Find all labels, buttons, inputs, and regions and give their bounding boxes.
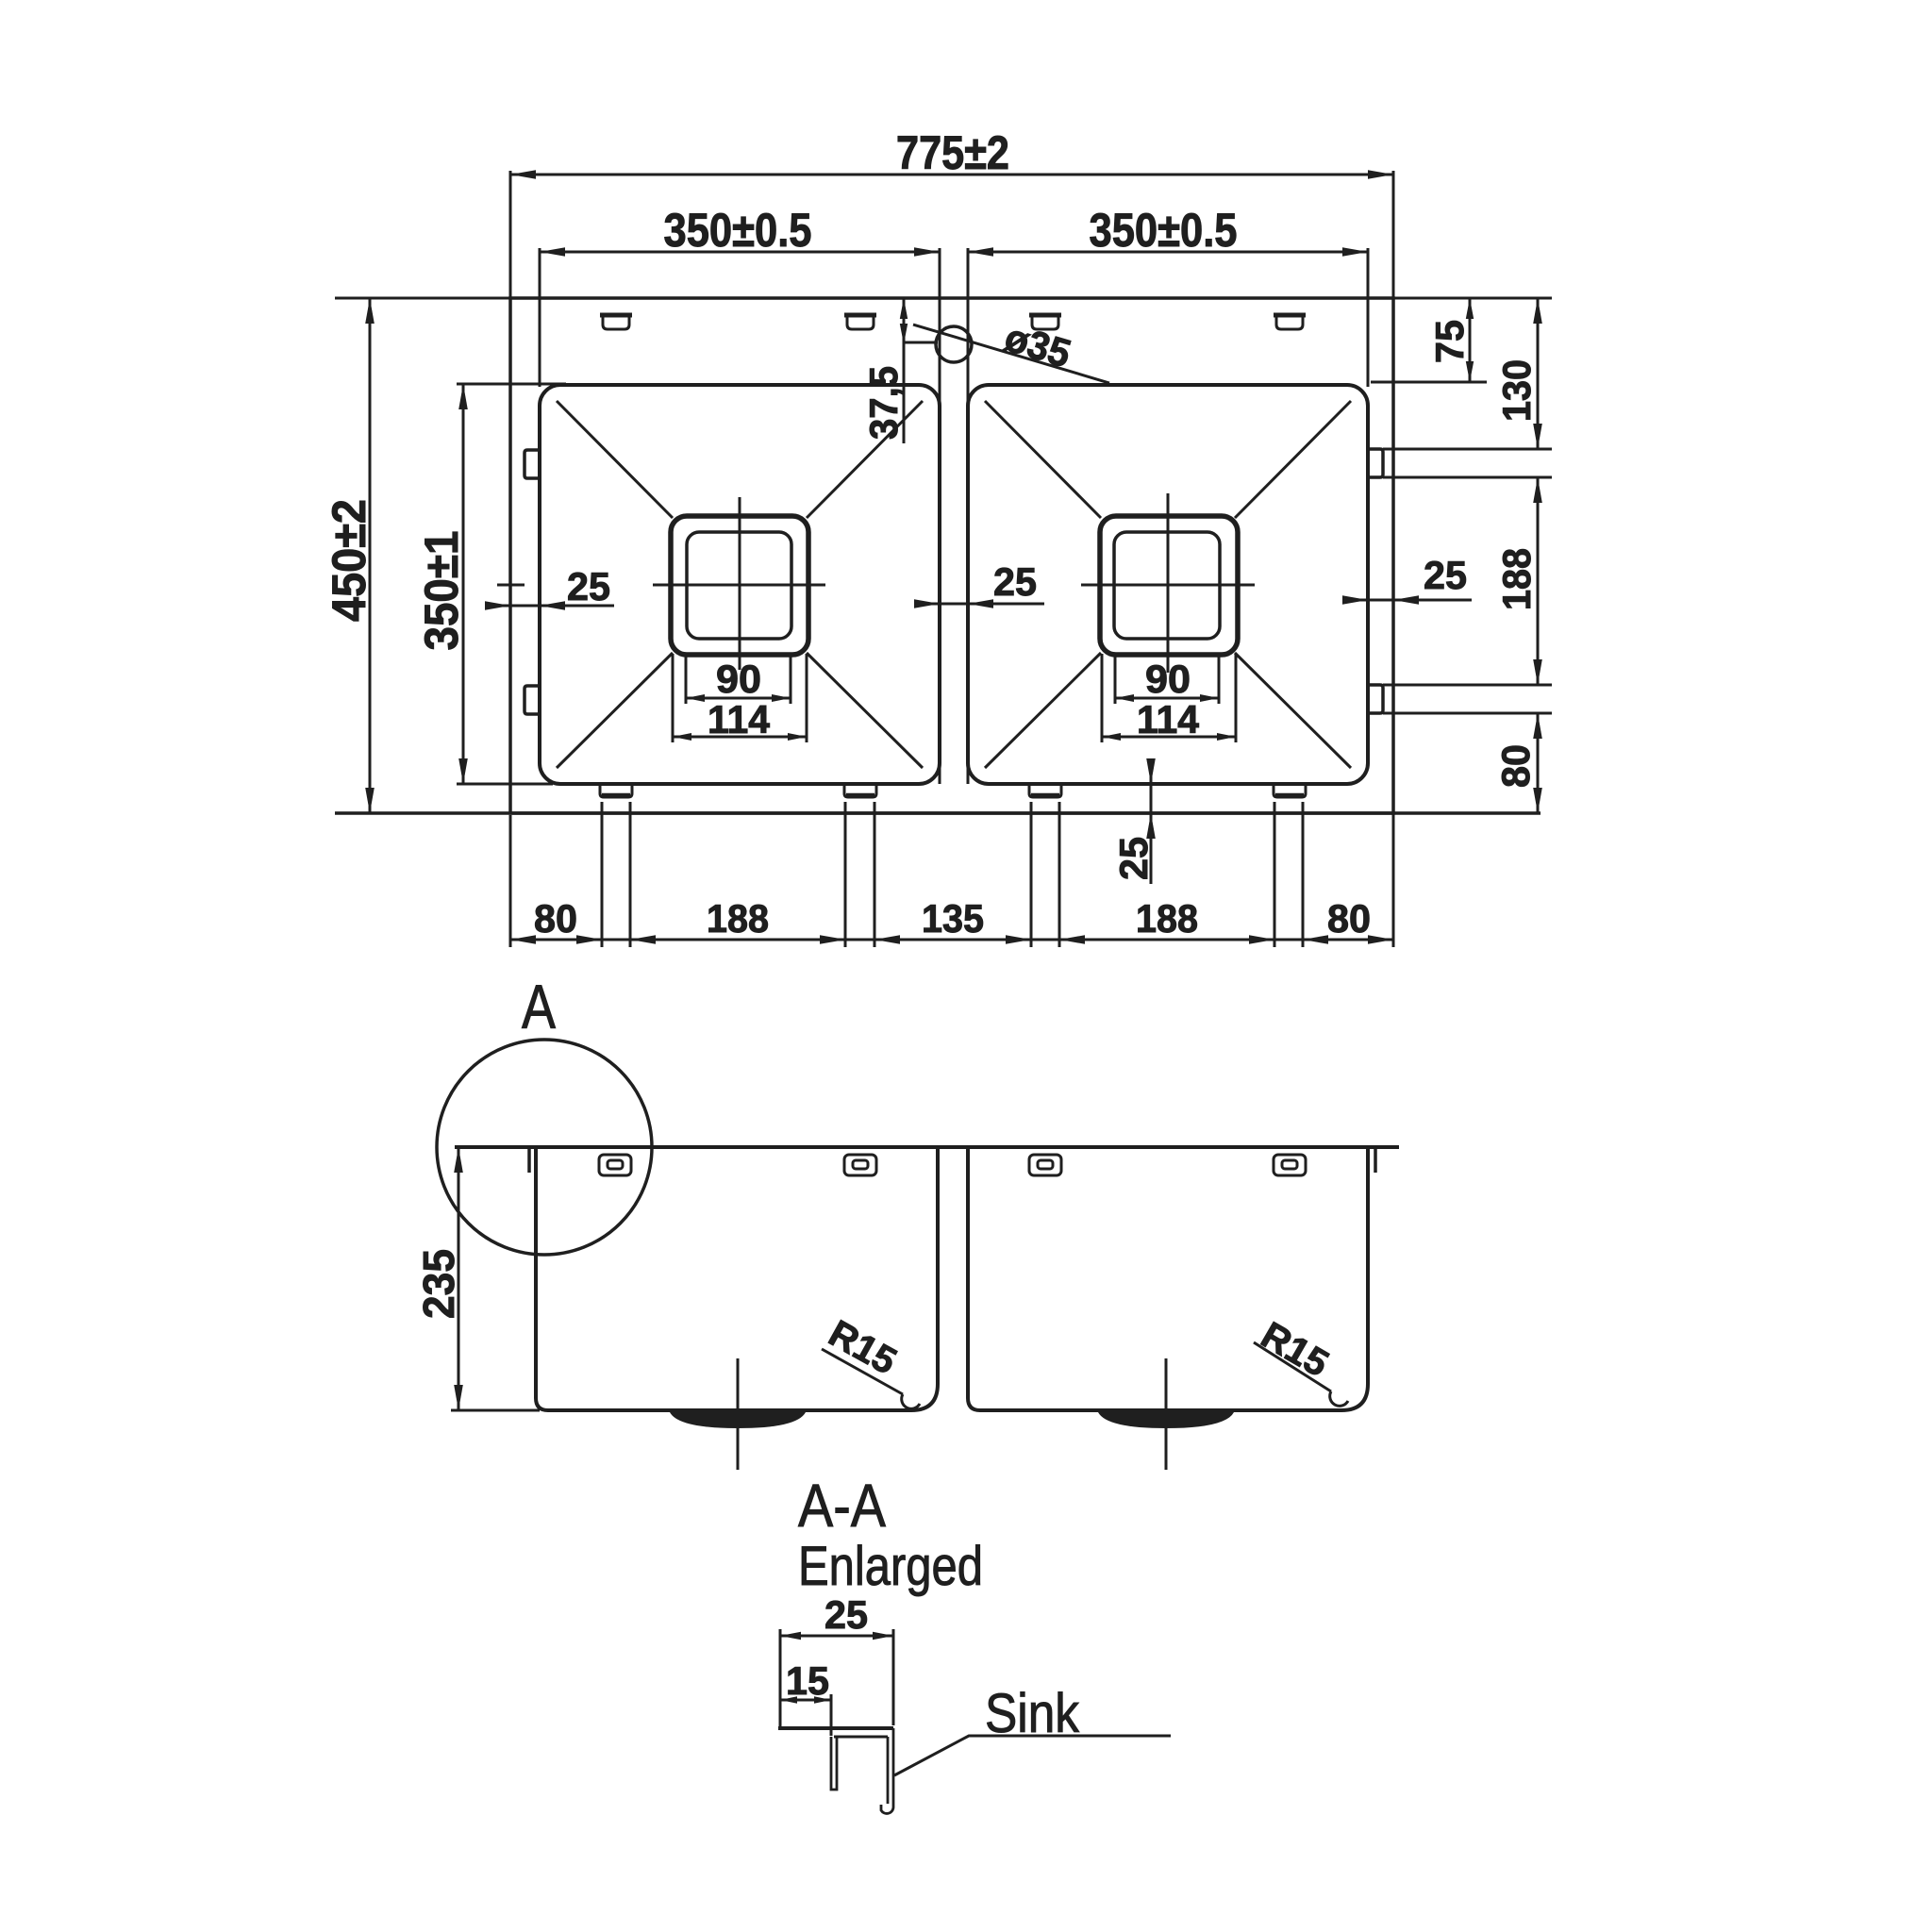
dim 75 [1469, 298, 1472, 382]
left drain outer square [671, 516, 808, 655]
mounting clips, top edge [600, 313, 632, 318]
dim 25 right flange [1343, 599, 1472, 602]
dim 90 left [685, 654, 688, 704]
dim 350±0.5 left [540, 251, 940, 254]
R15 right leader [1254, 1342, 1331, 1391]
svg-text:25: 25 [1111, 837, 1156, 880]
dim 775±2 [510, 174, 1393, 176]
dim 350±1 [462, 384, 465, 784]
svg-text:75: 75 [1427, 320, 1472, 363]
profile right leg with hook [881, 1728, 893, 1813]
right bowl [968, 385, 1368, 784]
svg-text:R15: R15 [1254, 1314, 1335, 1385]
dim 235 [458, 1147, 460, 1410]
svg-text:15: 15 [786, 1658, 829, 1703]
svg-text:350±1: 350±1 [415, 531, 468, 651]
svg-text:37,5: 37,5 [861, 366, 906, 440]
svg-text:114: 114 [708, 697, 771, 741]
right drain outer square [1100, 516, 1238, 655]
svg-text:A: A [522, 972, 556, 1041]
top view: sink plan [323, 126, 1552, 947]
bottom edge long line [335, 811, 1541, 815]
svg-text:235: 235 [414, 1249, 463, 1319]
svg-text:80: 80 [1327, 896, 1371, 941]
enlarged detail A-A [778, 1592, 1171, 1813]
drain centerlines below bowls [737, 1358, 740, 1470]
flange profile [778, 1726, 893, 1730]
svg-text:188: 188 [707, 896, 769, 941]
left bowl [540, 385, 940, 784]
mounting clips, right edge [1368, 449, 1383, 477]
svg-text:90: 90 [1145, 657, 1191, 701]
dim 90 right [1114, 654, 1117, 704]
dim 350±0.5 right [968, 251, 1368, 254]
svg-text:130: 130 [1494, 359, 1539, 422]
right drain inner square [1114, 532, 1220, 639]
svg-text:ø35: ø35 [1000, 315, 1076, 376]
svg-text:135: 135 [922, 896, 984, 941]
tap hole leader [913, 325, 1109, 383]
dim 130 [1537, 298, 1540, 449]
sink outer flange rectangle [510, 298, 1393, 813]
detail circle A [437, 1040, 652, 1255]
svg-text:80: 80 [1493, 744, 1538, 788]
dim 37,5 [903, 298, 906, 443]
svg-text:25: 25 [824, 1592, 868, 1637]
dim 25 divider [914, 603, 1044, 606]
bottom extension lines [601, 802, 604, 947]
svg-text:A-A: A-A [798, 1472, 886, 1540]
dim 450±2 [369, 298, 372, 813]
dim 114 right [1101, 654, 1104, 742]
svg-text:350±0.5: 350±0.5 [1090, 204, 1238, 257]
dim 25 left flange [486, 605, 614, 608]
svg-text:Sink: Sink [985, 1683, 1080, 1744]
left drain inner square [687, 532, 791, 639]
svg-text:114: 114 [1137, 697, 1200, 741]
dim 80 right [1537, 713, 1540, 813]
svg-text:188: 188 [1494, 548, 1539, 610]
svg-text:Enlarged: Enlarged [798, 1536, 983, 1597]
drain recess right [1098, 1412, 1234, 1428]
R15 left leader [822, 1349, 903, 1394]
svg-text:80: 80 [534, 896, 577, 941]
left bowl section profile [536, 1147, 938, 1410]
bottom dim line 80/188/135/188/80 [510, 939, 1393, 941]
profile left leg [831, 1737, 837, 1790]
svg-text:775±2: 775±2 [896, 126, 1009, 179]
dim 25 detail [780, 1635, 893, 1638]
right side extension lines [1393, 297, 1552, 300]
bowl diagonals [557, 401, 673, 518]
drain recess left [670, 1412, 806, 1428]
dim 114 left [672, 654, 675, 742]
svg-text:350±0.5: 350±0.5 [664, 204, 812, 257]
section clips [599, 1155, 631, 1175]
mounting clips, bottom edge [600, 785, 632, 797]
section view A-A [414, 972, 1399, 1470]
drain centerlines [653, 584, 825, 587]
right bowl section profile [968, 1147, 1368, 1410]
svg-text:25: 25 [993, 559, 1037, 604]
tap hole circle [936, 326, 972, 362]
flange lips [527, 1148, 531, 1173]
dim 25 bottom flange (rotated) [1150, 760, 1153, 884]
dim 188 right [1537, 477, 1540, 685]
svg-text:25: 25 [567, 564, 610, 608]
svg-text:25: 25 [1424, 553, 1467, 597]
sink leader [894, 1736, 1171, 1775]
svg-text:90: 90 [716, 657, 761, 701]
svg-text:450±2: 450±2 [323, 499, 375, 622]
mounting clips, left edge [525, 450, 540, 478]
dim 15 detail [780, 1699, 831, 1702]
svg-text:188: 188 [1136, 896, 1198, 941]
countertop line [455, 1145, 1399, 1149]
